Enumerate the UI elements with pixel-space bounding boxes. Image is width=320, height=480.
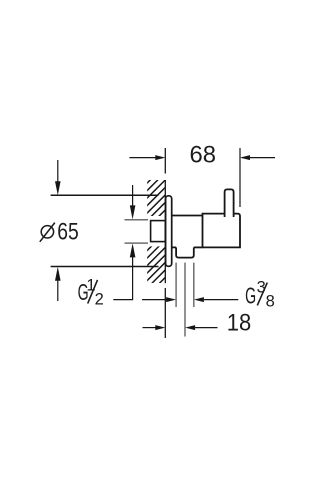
svg-text:8: 8	[266, 293, 275, 311]
svg-text:68: 68	[190, 142, 217, 169]
svg-text:65: 65	[57, 218, 79, 245]
svg-text:G: G	[245, 282, 256, 308]
svg-text:18: 18	[227, 310, 252, 337]
svg-text:2: 2	[95, 290, 104, 308]
